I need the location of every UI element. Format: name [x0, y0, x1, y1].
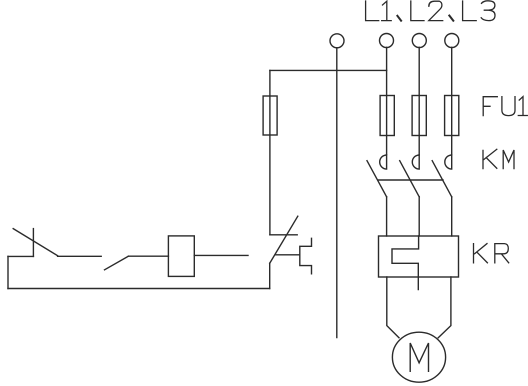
motor M circle	[392, 332, 445, 382]
stop button actuator	[32, 229, 34, 257]
contactor KM pole 1: moving blade	[367, 161, 387, 197]
terminal circle (control feed)	[330, 34, 344, 48]
fuse FU1 pole 1	[380, 96, 394, 136]
thermal relay KR heater element	[392, 236, 419, 290]
contactor KM pole 3: moving blade	[432, 161, 452, 197]
wire: pole 3 blade to KR box	[451, 197, 453, 236]
wire: left riser	[7, 256, 9, 288]
thermal relay KR NC contact blade	[270, 216, 298, 263]
motor letter M	[410, 343, 428, 371]
thermal relay KR contact bracket	[300, 238, 312, 273]
contactor KM pole 3: fixed contact arc	[445, 155, 452, 169]
wire: control branch vertical (to control fuse)	[269, 70, 271, 234]
wire: pole 2 blade to KR box	[418, 197, 420, 236]
wire: KR box to motor (right)	[438, 277, 451, 338]
wire: L2 vertical (terminal to KM contact)	[418, 47, 420, 154]
wire: pole 1 blade to KR box	[386, 197, 388, 236]
wire: stop button to start button	[58, 255, 102, 257]
wire: KR contact to bottom rail	[269, 263, 271, 288]
label KR	[474, 244, 509, 263]
terminal circle L1	[380, 34, 394, 48]
wire: bottom rail	[8, 288, 270, 290]
stop button NC blade	[13, 229, 57, 256]
start button NO blade	[105, 256, 129, 270]
terminal circle L3	[445, 34, 459, 48]
wire: L3 vertical (terminal to KM contact)	[451, 47, 453, 154]
contactor KM pole 1: fixed contact arc	[380, 155, 387, 169]
wire: control-circuit vertical from feed terminal	[336, 48, 338, 338]
label FU1	[483, 97, 527, 116]
wire: jog at bottom of control fuse branch	[270, 234, 297, 236]
wire: coil to KR contact	[194, 254, 248, 256]
label KM	[483, 149, 514, 168]
contactor KM pole 2: fixed contact arc	[412, 155, 419, 169]
wire: start button to coil	[128, 255, 168, 257]
fuse (control circuit)	[263, 96, 277, 135]
wire: L1 vertical (terminal to KM contact)	[386, 47, 388, 154]
fuse FU1 pole 2	[412, 96, 426, 136]
contactor KM pole 2: moving blade	[400, 161, 420, 197]
wire: control feed horizontal to L1	[270, 69, 387, 71]
label L1.L2.L3	[366, 1, 495, 21]
contactor KM linkage bar	[378, 179, 443, 181]
thermal relay KR box	[379, 236, 459, 277]
wire: KR box to motor (left)	[387, 277, 399, 338]
wire: KR contact right lead	[276, 254, 300, 256]
coil KM	[168, 236, 194, 277]
wire: to stop button	[8, 255, 33, 257]
fuse FU1 pole 3	[445, 96, 459, 136]
terminal circle L2	[412, 34, 426, 48]
